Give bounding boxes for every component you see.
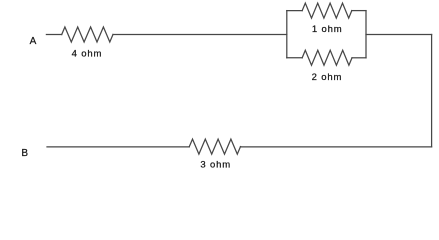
svg-text:B: B (21, 148, 28, 159)
wire top branch left (287, 10, 302, 12)
wire A to parallel network (113, 34, 287, 36)
svg-text:4 ohm: 4 ohm (72, 48, 103, 59)
wire parallel output to right edge (366, 34, 432, 36)
wire top branch right (352, 10, 366, 12)
wire A lead (46, 34, 61, 36)
wire parallel left vertical (286, 11, 288, 58)
wire parallel right vertical (365, 11, 367, 58)
wire right vertical down (431, 35, 433, 147)
wire bottom branch right (352, 57, 366, 59)
wire bottom right segment (241, 146, 432, 148)
resistor 1 ohm (302, 3, 352, 18)
resistor 3 ohm (189, 139, 240, 154)
resistor 2 ohm (302, 50, 352, 65)
resistor 4 ohm (62, 27, 113, 42)
svg-text:3 ohm: 3 ohm (200, 160, 231, 171)
svg-text:2 ohm: 2 ohm (312, 72, 343, 83)
svg-text:A: A (30, 36, 37, 47)
svg-text:1 ohm: 1 ohm (312, 24, 343, 35)
wire bottom branch left (287, 57, 302, 59)
wire bottom left segment (47, 146, 189, 148)
